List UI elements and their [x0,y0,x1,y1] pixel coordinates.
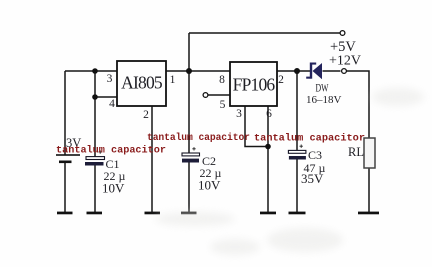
svg-text:tantalum capacitor: tantalum capacitor [56,145,166,157]
svg-text:10V: 10V [198,178,221,193]
svg-text:tantalum capacitor: tantalum capacitor [147,132,250,143]
svg-text:C3: C3 [308,148,322,162]
svg-text:2: 2 [278,74,284,86]
svg-text:16–18V: 16–18V [306,94,342,106]
svg-text:3: 3 [107,73,113,85]
svg-text:6: 6 [266,108,272,120]
svg-text:5: 5 [220,99,226,111]
svg-text:1: 1 [170,74,176,86]
svg-text:8: 8 [219,74,225,86]
svg-text:2: 2 [143,109,149,121]
svg-text:FP106: FP106 [233,75,276,95]
svg-text:RL: RL [348,145,364,159]
svg-text:AI805: AI805 [121,73,163,93]
svg-text:4: 4 [109,98,115,110]
svg-text:+12V: +12V [329,54,361,69]
svg-text:3: 3 [236,108,242,120]
svg-text:tantalum capacitor: tantalum capacitor [254,133,365,145]
svg-text:10V: 10V [102,181,125,196]
svg-text:DW: DW [316,81,329,95]
svg-text:35V: 35V [301,171,324,186]
